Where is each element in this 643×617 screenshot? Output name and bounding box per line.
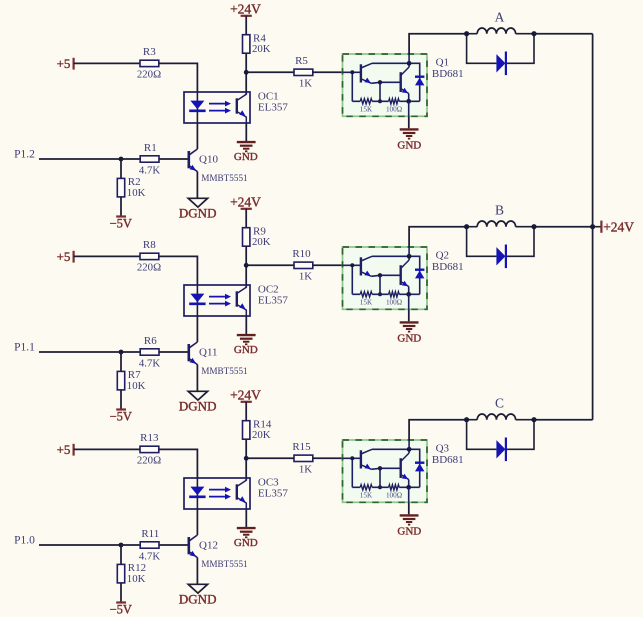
svg-text:R5: R5 (295, 55, 308, 67)
wire R4 to optocoupler collector (245, 53, 247, 94)
wire coil B to rail (534, 226, 593, 228)
power -5V terminal (110, 409, 132, 423)
svg-text:20K: 20K (252, 43, 271, 55)
wire R10 to darlington base (313, 264, 343, 266)
ground DGND (179, 584, 217, 606)
Q1 base pulldown wire (351, 72, 353, 101)
svg-text:20K: 20K (252, 429, 271, 441)
svg-text:DGND: DGND (179, 592, 217, 607)
Q3 T1 collector wire (372, 448, 409, 450)
svg-text:10K: 10K (127, 380, 146, 392)
Q3 emitter node (406, 485, 411, 490)
Q2 input node (350, 263, 354, 267)
Q2 collector node (407, 254, 412, 259)
wire opto emitter to GND (245, 123, 247, 141)
resistor R15 (1K) (292, 441, 312, 476)
wire +24V to R4 (245, 16, 247, 35)
resistor R4 (20K) (243, 33, 271, 56)
wire darlington emitter to GND (408, 116, 410, 128)
power -5V terminal (110, 602, 132, 616)
svg-text:GND: GND (397, 140, 421, 152)
node coil A right (531, 31, 536, 36)
Q1 emitter node (406, 99, 411, 104)
wire +5 to R8 (74, 255, 140, 257)
wire darlington collector to coil C (409, 420, 467, 440)
svg-text:R3: R3 (143, 46, 156, 58)
power +24V (C channel) (230, 387, 261, 402)
resistor R12 (10K) (117, 562, 146, 585)
darlington Q2 (BD681) module box (343, 247, 428, 309)
svg-text:DGND: DGND (179, 399, 217, 414)
wire opto emitter to GND (245, 316, 247, 334)
Q1 T1 emitter node (378, 80, 382, 84)
svg-text:4.7K: 4.7K (139, 164, 160, 176)
power -5V terminal (110, 216, 132, 230)
wire R13 to LED anode (159, 449, 198, 478)
Q1 bottom rail wire (352, 100, 419, 102)
resistor R7 (10K) (117, 369, 145, 392)
svg-text:EL357: EL357 (258, 101, 288, 113)
svg-text:4.7K: 4.7K (139, 357, 160, 369)
Q1 T2 emitter wire (408, 94, 410, 102)
svg-text:P1.2: P1.2 (14, 148, 35, 160)
Q3 T2 emitter wire (408, 480, 410, 488)
svg-text:B: B (495, 203, 504, 218)
freewheel diode C (496, 438, 506, 462)
resistor R14 (20K) (243, 419, 272, 442)
Q3 internal resistor 100 ohm (389, 485, 400, 490)
svg-text:GND: GND (397, 333, 421, 345)
svg-text:GND: GND (234, 151, 258, 163)
Q3 input node (350, 456, 354, 460)
svg-text:C: C (495, 396, 504, 411)
Q2 input wire (343, 264, 361, 266)
ground GND (opto emitter) (237, 528, 256, 537)
wire R14 to optocoupler collector (245, 439, 247, 480)
Q3 T1 emitter node (378, 466, 382, 470)
svg-text:15K: 15K (360, 298, 373, 306)
resistor R2 (10K) (117, 176, 145, 199)
Q1 T1 collector wire (372, 62, 409, 64)
wire R2 to -5V (120, 197, 122, 217)
svg-text:Q11: Q11 (199, 346, 218, 358)
transistor Q12 (189, 535, 198, 558)
svg-text:GND: GND (234, 344, 258, 356)
svg-text:10K: 10K (127, 573, 146, 585)
svg-text:+24V: +24V (230, 1, 261, 16)
svg-text:R1: R1 (144, 142, 157, 154)
ground DGND (179, 391, 217, 413)
Q3 collector node (407, 447, 412, 452)
svg-text:P1.1: P1.1 (14, 341, 35, 353)
wire R7 to -5V (120, 390, 122, 410)
svg-text:EL357: EL357 (258, 487, 288, 499)
svg-text:BD681: BD681 (432, 454, 464, 466)
svg-text:100Ω: 100Ω (386, 105, 402, 113)
wire R1 to base (159, 158, 189, 160)
optocoupler OC2 (EL357) (184, 285, 250, 316)
svg-text:R13: R13 (140, 432, 159, 444)
Q3 T1 emitter wire (371, 468, 400, 469)
svg-text:100Ω: 100Ω (386, 298, 402, 306)
wire R12 to -5V (120, 583, 122, 603)
wire +24V to R14 (245, 402, 247, 421)
freewheel diode B (496, 245, 506, 269)
node base divider (119, 157, 124, 162)
wire node to R2 (120, 159, 122, 178)
Q1 emitter pin wire (408, 101, 410, 116)
wire P1.1 to node (39, 351, 121, 353)
power +5 terminal (57, 56, 74, 71)
wire emitter to DGND (196, 365, 198, 392)
svg-text:20K: 20K (252, 236, 271, 248)
svg-text:MMBT5551: MMBT5551 (201, 559, 248, 569)
wire junction to R10 (246, 264, 294, 266)
darlington Q1 (BD681) module box (343, 54, 428, 116)
wire coil C to rail (534, 419, 593, 421)
wire opto emitter to GND (245, 509, 247, 527)
svg-text:MMBT5551: MMBT5551 (201, 366, 248, 376)
ground GND (darlington) (400, 322, 419, 331)
svg-text:+5: +5 (57, 442, 71, 457)
wire junction to R5 (246, 71, 294, 73)
wire junction to R15 (246, 457, 294, 459)
Q1 transistor T2 (401, 67, 409, 94)
wire R6 to base (159, 351, 189, 353)
power +24V (B channel) (230, 194, 261, 209)
node coil B left (464, 224, 469, 229)
Q1 collector node (407, 61, 412, 66)
svg-text:MMBT5551: MMBT5551 (201, 173, 248, 183)
Q1 input wire (343, 71, 361, 73)
wire +24V rail (592, 34, 594, 420)
svg-text:−5V: −5V (110, 602, 132, 616)
Q3 internal resistor 15K (360, 485, 372, 490)
resistor R11 (4.7K) (139, 528, 160, 563)
node collector junction (244, 456, 249, 461)
Q1 transistor T1 (361, 63, 372, 83)
svg-text:Q1: Q1 (436, 57, 449, 69)
Q3 collector stem (408, 449, 410, 453)
svg-text:R10: R10 (292, 248, 311, 260)
svg-text:+5: +5 (57, 249, 71, 264)
svg-text:P1.0: P1.0 (14, 534, 35, 546)
Q3 bottom rail wire (352, 486, 419, 488)
wire darlington collector to coil A (409, 34, 467, 54)
ground GND (darlington) (400, 515, 419, 524)
Q2 collector stem (408, 256, 410, 260)
Q1 internal resistor 100 ohm (389, 99, 400, 104)
svg-text:+24V: +24V (230, 194, 261, 209)
Q3 bottom rail node (378, 485, 382, 489)
freewheel diode loop wire (467, 227, 534, 257)
Q1 input node (350, 70, 354, 74)
svg-text:R6: R6 (144, 335, 157, 347)
node base divider (119, 350, 124, 355)
resistor R1 (4.7K) (139, 142, 160, 177)
svg-text:Q12: Q12 (199, 539, 218, 551)
Q2 T1 collector wire (372, 255, 409, 257)
Q2 base pulldown wire (351, 265, 353, 294)
resistor R10 (1K) (292, 248, 312, 283)
svg-text:15K: 15K (360, 105, 373, 113)
wire R5 to darlington base (313, 71, 343, 73)
resistor R9 (20K) (243, 226, 271, 249)
svg-text:220Ω: 220Ω (137, 69, 161, 81)
Q3 base pulldown wire (351, 458, 353, 487)
optocoupler OC1 (EL357) (184, 92, 250, 123)
Q2 bottom rail node (378, 292, 382, 296)
svg-text:Q10: Q10 (199, 153, 218, 165)
wire node to R12 (120, 545, 122, 564)
wire +5 to R3 (74, 62, 140, 64)
Q1 collector pin wire (408, 54, 410, 63)
ground GND (opto emitter) (237, 142, 256, 151)
svg-text:−5V: −5V (110, 216, 132, 230)
resistor R6 (4.7K) (139, 335, 160, 370)
wire emitter to DGND (196, 172, 198, 199)
wire darlington emitter to GND (408, 309, 410, 321)
Q3 input wire (343, 457, 361, 459)
Q3 transistor T2 (401, 453, 409, 480)
svg-text:+24V: +24V (603, 219, 634, 234)
svg-text:1K: 1K (299, 271, 312, 283)
power +24V (A channel) (230, 1, 261, 16)
wire R8 to LED anode (159, 256, 198, 285)
Q3 T2 base pulldown wire (379, 468, 381, 487)
svg-text:GND: GND (397, 526, 421, 538)
Q2 emitter pin wire (408, 294, 410, 309)
svg-text:R8: R8 (143, 239, 156, 251)
Q1 collector stem (408, 63, 410, 67)
Q1 T1 emitter wire (371, 82, 400, 83)
ground DGND (179, 198, 217, 220)
svg-text:15K: 15K (360, 491, 373, 499)
node +24V rail (590, 224, 595, 229)
transistor Q11 (189, 342, 198, 365)
inductor coil A (467, 28, 534, 34)
Q1 internal diode (409, 63, 424, 101)
transistor Q10 (189, 149, 198, 172)
Q2 T1 emitter node (378, 273, 382, 277)
Q1 bottom rail node (378, 99, 382, 103)
svg-text:+5: +5 (57, 56, 71, 71)
Q2 internal resistor 15K (360, 292, 372, 297)
svg-text:BD681: BD681 (432, 68, 464, 80)
wire node to R11 (121, 544, 140, 546)
Q2 internal resistor 100 ohm (389, 292, 400, 297)
svg-text:EL357: EL357 (258, 294, 288, 306)
power +5 terminal (57, 249, 74, 264)
freewheel diode loop wire (467, 420, 534, 450)
svg-text:−5V: −5V (110, 409, 132, 423)
node collector junction (244, 263, 249, 268)
wire collector to LED cathode (196, 509, 198, 535)
power +24V rail terminal (593, 219, 635, 234)
ground GND (darlington) (400, 129, 419, 138)
svg-text:100Ω: 100Ω (386, 491, 402, 499)
Q1 T2 base pulldown wire (379, 82, 381, 101)
Q3 collector pin wire (408, 440, 410, 449)
resistor R5 (1K) (294, 55, 313, 90)
wire coil A to rail (534, 33, 593, 35)
Q2 transistor T1 (361, 256, 372, 276)
svg-text:220Ω: 220Ω (137, 262, 161, 274)
wire node to R6 (121, 351, 140, 353)
Q2 emitter node (406, 292, 411, 297)
ground GND (opto emitter) (237, 335, 256, 344)
svg-text:Q2: Q2 (436, 250, 449, 262)
svg-text:Q3: Q3 (436, 443, 450, 455)
wire +5 to R13 (74, 448, 140, 450)
wire P1.0 to node (39, 544, 121, 546)
Q2 transistor T2 (401, 260, 409, 287)
Q1 internal resistor 15K (360, 99, 372, 104)
wire P1.2 to node (39, 158, 121, 160)
svg-text:R11: R11 (141, 528, 159, 540)
svg-text:1K: 1K (299, 78, 312, 90)
Q3 emitter pin wire (408, 487, 410, 502)
Q2 T2 emitter wire (408, 287, 410, 295)
inductor coil B (467, 221, 534, 227)
resistor R3 (220Ω) (137, 46, 161, 80)
svg-text:4.7K: 4.7K (139, 550, 160, 562)
wire R11 to base (159, 544, 189, 546)
wire R15 to darlington base (313, 457, 343, 459)
optocoupler OC3 (EL357) (184, 478, 250, 509)
wire emitter to DGND (196, 558, 198, 585)
Q2 T2 base pulldown wire (379, 275, 381, 294)
Q3 internal diode (409, 449, 424, 487)
wire R9 to optocoupler collector (245, 246, 247, 287)
svg-text:BD681: BD681 (432, 261, 464, 273)
svg-text:A: A (495, 10, 505, 25)
svg-text:R15: R15 (292, 441, 311, 453)
resistor R8 (220Ω) (137, 239, 161, 274)
power +5 terminal (57, 442, 74, 457)
svg-text:GND: GND (234, 537, 258, 549)
freewheel diode loop wire (467, 34, 534, 64)
wire node to R7 (120, 352, 122, 371)
wire darlington collector to coil B (409, 227, 467, 247)
svg-text:1K: 1K (299, 464, 312, 476)
wire R3 to LED anode (159, 63, 198, 92)
wire collector to LED cathode (196, 316, 198, 342)
Q2 T1 emitter wire (371, 275, 400, 276)
node coil B right (531, 224, 536, 229)
svg-text:DGND: DGND (179, 206, 217, 221)
freewheel diode A (496, 52, 506, 76)
node collector junction (244, 70, 249, 75)
node coil C left (464, 417, 469, 422)
Q2 bottom rail wire (352, 293, 419, 295)
inductor coil C (467, 414, 534, 420)
resistor R13 (220Ω) (137, 432, 161, 467)
darlington Q3 (BD681) module box (343, 440, 428, 502)
svg-text:220Ω: 220Ω (137, 455, 161, 467)
svg-text:+24V: +24V (230, 387, 261, 402)
Q2 internal diode (409, 256, 424, 294)
node coil C right (531, 417, 536, 422)
wire collector to LED cathode (196, 123, 198, 149)
node coil A left (464, 31, 469, 36)
Q2 collector pin wire (408, 247, 410, 256)
svg-text:10K: 10K (127, 187, 146, 199)
Q3 transistor T1 (361, 449, 372, 469)
node base divider (119, 543, 124, 548)
wire darlington emitter to GND (408, 502, 410, 514)
wire node to R1 (121, 158, 140, 160)
wire +24V to R9 (245, 209, 247, 228)
